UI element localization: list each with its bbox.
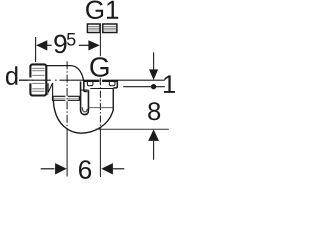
dimension 6 left arrow (41, 163, 67, 174)
centerline of vertical G connection (middle, dash-dot) (99, 78, 101, 135)
flange slot left (87, 81, 93, 86)
trap bowl centerline extension to bottom dimension (66, 135, 68, 177)
dimension text 1 (164, 75, 175, 93)
dimension 1 down arrow (149, 52, 158, 80)
trap cup outline (53, 88, 113, 133)
dimension 9^5 left arrow (36, 40, 52, 50)
axis dash-dot gaps (51, 79, 55, 81)
body joint right vertical (52, 83, 54, 96)
trap bowl centerline (dash-dot) (66, 61, 68, 135)
lower reference line right (96, 128, 169, 130)
centerline of vertical G connection (upper segment) (99, 23, 101, 56)
inlet pipe bottom edge (46, 93, 48, 95)
dip tube U inner (82, 107, 87, 112)
inlet elbow outer arc (71, 66, 84, 87)
outlet flange body (84, 80, 117, 91)
dimension 6 right arrow (101, 163, 124, 174)
thread symbol G1 right half (103, 24, 117, 33)
dimension text 9 (54, 35, 66, 54)
inner shelf line (88, 107, 113, 109)
flange slot right (109, 81, 115, 86)
dimension superscript 5 (67, 33, 76, 46)
body joint detail left vertical (47, 83, 49, 92)
body joint diagonal (48, 83, 53, 93)
label d (6, 66, 17, 85)
centerline break across flange (99, 79, 102, 83)
step under elbow horizontal (80, 89, 88, 91)
junction dot (151, 84, 156, 89)
screw band hatch (52, 96, 81, 100)
main horizontal axis / seal-plane line (19, 79, 165, 81)
inlet pipe top edge (46, 65, 71, 67)
gasket line right (123, 86, 165, 88)
dimension 9^5 left extension line (35, 37, 37, 62)
label G (90, 57, 108, 77)
dimension 9^5 right arrow (79, 40, 100, 50)
inlet union nut (19, 64, 46, 95)
dimension text 8 (148, 102, 160, 120)
dip tube outer wall and U bend (81, 82, 89, 115)
dimension 8 up arrow (148, 129, 159, 159)
thread symbol G1 left half (87, 24, 100, 33)
dimension text 6 (79, 160, 91, 179)
label G1 (86, 1, 118, 19)
centerline of vertical G connection (lower extension) (99, 135, 101, 177)
